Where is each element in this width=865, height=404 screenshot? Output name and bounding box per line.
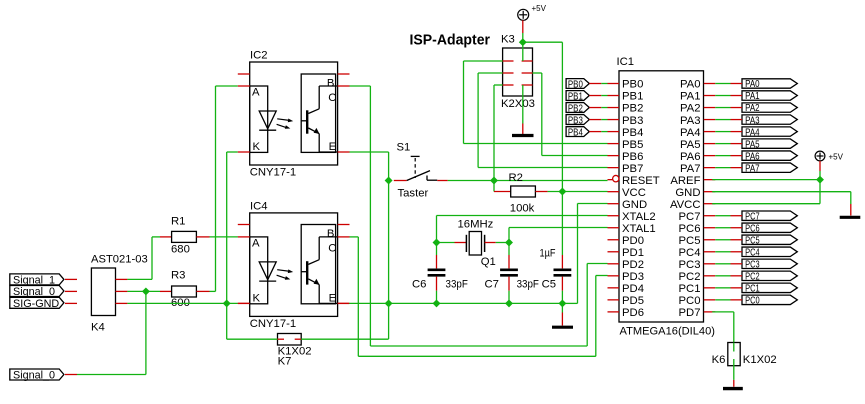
supply +5V top	[518, 9, 529, 20]
capacitor C7 33pF	[508, 255, 510, 268]
pin IC2 C	[338, 85, 350, 87]
wire to IC1 PD2	[587, 263, 607, 265]
transistor IC2 phototransistor	[306, 110, 308, 133]
wire to PD3 column	[358, 355, 596, 357]
wire to PB6	[542, 155, 608, 157]
wire K6 pin1	[733, 343, 735, 352]
svg-text:PB0: PB0	[622, 79, 643, 91]
pin K3 right row 73	[522, 72, 533, 74]
wire XTAL1 vertical	[508, 228, 510, 256]
wire PD7	[712, 311, 734, 313]
svg-text:Signal_1: Signal_1	[13, 274, 55, 286]
connector frame SIG-GND	[10, 297, 64, 308]
svg-text:PA3: PA3	[745, 114, 760, 126]
wire PA4	[715, 131, 730, 133]
svg-text:1µF: 1µF	[540, 248, 556, 260]
wire PC4	[715, 251, 730, 253]
node AREF	[816, 176, 824, 184]
svg-text:+5V: +5V	[829, 153, 844, 162]
connector K4 AST021-03	[91, 268, 115, 316]
IC4 LED box	[250, 237, 268, 304]
svg-text:AST021-03: AST021-03	[91, 254, 148, 266]
wire to PB5	[464, 143, 608, 145]
wire PD2 vertical	[586, 264, 588, 347]
IC1 pin VCC (left)	[608, 191, 620, 193]
svg-text:PC4: PC4	[745, 246, 760, 258]
svg-text:PB3: PB3	[568, 114, 583, 126]
IC1 pin PA5 (right)	[704, 143, 716, 145]
wire XTAL2 net	[437, 215, 608, 217]
pin PC6 frame	[731, 227, 743, 229]
pin IC4 B	[338, 224, 350, 226]
wire PB1	[601, 95, 607, 97]
svg-text:PC0: PC0	[745, 295, 760, 307]
svg-text:PC2: PC2	[745, 271, 760, 283]
IC1 pin XTAL2 (left)	[608, 215, 620, 217]
IC1 pin PB3 (left)	[608, 119, 620, 121]
wire K4-2 to R3	[127, 290, 160, 292]
wire +5V	[522, 33, 524, 42]
connector frame PC1	[742, 283, 797, 292]
wire MOSI vertical	[463, 61, 465, 144]
svg-text:PA2: PA2	[680, 103, 701, 115]
IC1 pin PC6 (right)	[704, 227, 716, 229]
pin PA3 frame	[731, 119, 743, 121]
node RESET/R2	[490, 177, 498, 185]
wire PC5	[715, 239, 730, 241]
wire IC4 C	[350, 236, 359, 238]
connector frame PA2	[742, 103, 797, 112]
IC1 pin PB5 (left)	[608, 143, 620, 145]
connector frame PA6	[742, 151, 797, 160]
svg-text:C6: C6	[412, 279, 426, 291]
wire XTAL1 net	[509, 227, 608, 229]
svg-text:K4: K4	[91, 322, 105, 334]
node crystal right	[505, 239, 513, 247]
svg-text:GND: GND	[622, 199, 647, 211]
wire K6 pin2	[733, 359, 735, 380]
wire +5V to VCC column	[523, 41, 563, 43]
node S1 left	[385, 177, 393, 185]
wire PA0	[715, 83, 730, 85]
wire VCC to C5	[561, 192, 563, 256]
node rail junction	[385, 299, 393, 307]
svg-text:100k: 100k	[510, 203, 535, 215]
svg-text:PD5: PD5	[622, 295, 644, 307]
svg-text:K3: K3	[501, 34, 515, 46]
svg-text:PB4: PB4	[622, 127, 643, 139]
IC1 pin PD1 (left)	[608, 251, 620, 253]
IC1 pin PA7 (right)	[704, 167, 716, 169]
pin Signal_1	[65, 278, 77, 280]
wire +5V to AREF	[819, 171, 821, 180]
wire PD7 to K6	[733, 312, 735, 343]
svg-text:A: A	[252, 87, 260, 99]
pin K4-1	[116, 278, 128, 280]
pin PC4 frame	[731, 251, 743, 253]
node VCC junction	[558, 188, 566, 196]
svg-text:PB3: PB3	[622, 115, 643, 127]
wire PC6	[715, 227, 730, 229]
wire GND rail right	[349, 302, 562, 304]
svg-text:PA3: PA3	[680, 115, 701, 127]
svg-text:PA7: PA7	[680, 163, 701, 175]
S1 actuator	[414, 158, 416, 178]
connector frame PA4	[742, 127, 797, 136]
wire RESET net	[448, 180, 608, 182]
pin PB3 frame	[589, 119, 601, 121]
IC1 pin GND (left)	[608, 203, 620, 205]
supply +5V right	[815, 151, 825, 161]
wire K3 pin3	[478, 72, 503, 74]
svg-text:PA4: PA4	[680, 127, 701, 139]
wire PA2	[715, 107, 730, 109]
svg-text:A: A	[252, 237, 260, 249]
svg-text:PA4: PA4	[745, 126, 760, 138]
IC1 pin PA0 (right)	[704, 83, 716, 85]
pin S1 right	[437, 180, 447, 182]
IC1 pin PD3 (left)	[608, 275, 620, 277]
optocoupler IC4 CNY17-1 outline	[250, 213, 338, 317]
wire R3 right	[210, 290, 216, 292]
wire PB4	[601, 131, 607, 133]
svg-text:PC6: PC6	[679, 223, 701, 235]
svg-text:PD3: PD3	[622, 271, 644, 283]
wire R2 left drop	[493, 181, 495, 192]
connector frame PA1	[742, 91, 797, 100]
wire IC2 C vertical	[369, 86, 371, 346]
svg-text:R1: R1	[171, 216, 185, 228]
svg-text:16MHz: 16MHz	[458, 219, 494, 231]
wire AVCC	[712, 203, 820, 205]
svg-text:VCC: VCC	[622, 187, 646, 199]
pin PA2 frame	[731, 107, 743, 109]
pin PB1 frame	[589, 95, 601, 97]
IC1 pin XTAL1 (left)	[608, 227, 620, 229]
pin IC2 B	[338, 73, 350, 75]
IC1 pin PC3 (right)	[704, 263, 716, 265]
svg-text:IC4: IC4	[250, 200, 268, 212]
pin IC4 C	[338, 236, 350, 238]
IC1 pin PD5 (left)	[608, 299, 620, 301]
IC1 pin PA1 (right)	[704, 95, 716, 97]
connector frame Signal_0 bottom	[10, 369, 64, 380]
connector frame PA5	[742, 139, 797, 148]
IC1 pin PC5 (right)	[704, 239, 716, 241]
connector frame PB3	[566, 115, 589, 125]
svg-text:K2X03: K2X03	[501, 98, 535, 110]
IC1 pin PC0 (right)	[704, 299, 716, 301]
IC1 pin PB0 (left)	[608, 83, 620, 85]
svg-text:+5V: +5V	[532, 4, 547, 13]
wire rail to K7 right	[388, 303, 390, 339]
IC1 pin PC4 (right)	[704, 251, 716, 253]
pin PC7 frame	[731, 215, 743, 217]
pin +5V top	[522, 20, 524, 33]
ground symbol K3	[512, 134, 534, 137]
wire	[437, 242, 455, 244]
IC1 pin PC2 (right)	[704, 275, 716, 277]
connector K7 K1X02	[278, 334, 302, 346]
svg-text:PB2: PB2	[568, 102, 583, 114]
IC1 pin PB2 (left)	[608, 107, 620, 109]
node SIG-GND junction	[223, 299, 231, 307]
wire PB0	[601, 83, 607, 85]
pin K3 left row 61	[503, 60, 514, 62]
wire IC2 C	[350, 85, 371, 87]
svg-text:PD2: PD2	[622, 259, 644, 271]
svg-text:Q1: Q1	[481, 256, 496, 268]
svg-text:XTAL1: XTAL1	[622, 223, 656, 235]
S1 lever	[407, 171, 430, 181]
wire GND right	[712, 191, 851, 193]
wire PC7	[715, 215, 730, 217]
wire Signal_0 bottom	[77, 374, 146, 376]
svg-text:PB1: PB1	[622, 91, 643, 103]
connector frame PC2	[742, 271, 797, 280]
IC1 pin PD6 (left)	[608, 311, 620, 313]
wire IC2 K down to rail	[226, 152, 228, 303]
svg-text:SIG-GND: SIG-GND	[13, 298, 59, 310]
svg-text:CNY17-1: CNY17-1	[250, 167, 296, 179]
svg-text:PA6: PA6	[680, 151, 701, 163]
wire K3 pin5	[494, 84, 503, 86]
svg-text:PC3: PC3	[679, 259, 701, 271]
svg-text:PB4: PB4	[568, 126, 583, 138]
IC4 LED symbol	[259, 262, 276, 280]
svg-text:PB1: PB1	[568, 90, 583, 102]
pin K6 to ground	[733, 380, 735, 387]
svg-text:PC1: PC1	[679, 283, 701, 295]
svg-text:R2: R2	[509, 172, 523, 184]
wire PD3 vertical	[595, 276, 597, 357]
wire R1 to IC4 A	[210, 236, 238, 238]
IC1 pin PB1 (left)	[608, 95, 620, 97]
svg-text:K6: K6	[712, 354, 726, 366]
IC1 pin PD7 (right)	[704, 311, 716, 313]
IC1 pin PB7 (left)	[608, 167, 620, 169]
IC1 pin PA3 (right)	[704, 119, 716, 121]
S1 right contact	[426, 176, 428, 181]
svg-text:PD0: PD0	[622, 235, 644, 247]
IC1 pin GND (right)	[704, 191, 716, 193]
pin PC1 frame	[731, 287, 743, 289]
wire K4-1 to R1	[127, 278, 152, 280]
svg-text:PC2: PC2	[679, 271, 701, 283]
wire SIG-GND rail left	[127, 302, 237, 304]
pin IC4 NC left	[238, 224, 250, 226]
wire PA1	[715, 95, 730, 97]
wire to R1 left	[152, 236, 160, 238]
connector K6 K1X02	[728, 343, 740, 366]
wire vertical up to R1 row	[151, 237, 153, 280]
IC1 pin PD4 (left)	[608, 287, 620, 289]
svg-text:PB2: PB2	[622, 103, 643, 115]
pin Signal_0 bottom	[65, 374, 77, 376]
wire PC2	[715, 275, 730, 277]
IC1 pin PB6 (left)	[608, 155, 620, 157]
wire RESET vertical	[493, 85, 495, 181]
svg-text:K1X02: K1X02	[743, 354, 777, 366]
node C6 gnd	[433, 299, 441, 307]
svg-text:PB0: PB0	[568, 78, 583, 90]
svg-text:RESET: RESET	[622, 175, 660, 187]
wire +5V into K3 pin2	[522, 42, 524, 61]
wire vertical R3 to IC2 A	[215, 86, 217, 291]
ground symbol K6	[723, 387, 743, 390]
connector frame PC3	[742, 259, 797, 268]
svg-text:PD7: PD7	[679, 307, 701, 319]
wire IC4 C vertical	[357, 237, 359, 356]
svg-text:K7: K7	[278, 356, 292, 368]
pin +5V right	[819, 161, 821, 171]
svg-text:AREF: AREF	[670, 175, 700, 187]
wire to IC2 K pin	[227, 151, 238, 153]
wire PA5	[715, 143, 730, 145]
svg-text:C7: C7	[485, 279, 499, 291]
IC1 pin AVCC (right)	[704, 203, 716, 205]
connector frame PB2	[566, 103, 589, 113]
svg-text:B: B	[327, 78, 335, 90]
IC1 pin PA4 (right)	[704, 131, 716, 133]
pin PB4 frame	[589, 131, 601, 133]
svg-text:C: C	[328, 92, 336, 104]
connector frame PB4	[566, 127, 589, 137]
svg-text:S1: S1	[397, 142, 411, 154]
svg-text:R3: R3	[171, 270, 185, 282]
pin PC5 frame	[731, 239, 743, 241]
svg-text:Signal_0: Signal_0	[13, 286, 55, 298]
IC2 LED symbol	[259, 111, 276, 129]
resistor R1 680	[160, 236, 172, 238]
svg-text:XTAL2: XTAL2	[622, 211, 656, 223]
wire MISO vertical	[541, 73, 543, 156]
svg-text:C: C	[328, 243, 336, 255]
wire rail to K7 left	[226, 303, 228, 339]
pin PA4 frame	[731, 131, 743, 133]
svg-text:PC7: PC7	[745, 210, 760, 222]
IC2 LED box	[250, 86, 268, 152]
svg-text:ISP-Adapter: ISP-Adapter	[410, 32, 491, 48]
svg-text:680: 680	[171, 244, 190, 256]
connector frame PC5	[742, 235, 797, 244]
transistor IC4 phototransistor	[306, 261, 308, 284]
connector frame PA7	[742, 163, 797, 172]
wire K7 left	[227, 338, 278, 340]
connector frame PB0	[566, 79, 589, 89]
svg-text:PC5: PC5	[679, 235, 701, 247]
svg-text:33pF: 33pF	[517, 279, 539, 291]
connector frame Signal_1	[10, 274, 64, 285]
svg-text:PA7: PA7	[745, 162, 760, 174]
wire	[436, 291, 438, 304]
pin K3 right row 61	[522, 60, 533, 62]
wire IC2 E vertical to rail	[388, 152, 390, 303]
IC1 pin PD2 (left)	[608, 263, 620, 265]
wire IC2 E	[350, 151, 389, 153]
svg-text:K: K	[253, 141, 261, 153]
svg-text:PA1: PA1	[680, 91, 701, 103]
wire to PB7	[478, 167, 607, 169]
wire K3 pin1	[464, 60, 503, 62]
wire PC1	[715, 287, 730, 289]
svg-text:PC3: PC3	[745, 259, 760, 271]
svg-text:PC4: PC4	[679, 247, 701, 259]
node Signal_0 junction	[142, 287, 150, 295]
pin IC4 E	[338, 302, 350, 304]
wire to IC2 A pin	[216, 85, 238, 87]
wire	[496, 242, 509, 244]
connector frame Signal_0	[10, 286, 64, 297]
wire SCK vertical	[477, 73, 479, 168]
connector frame PC6	[742, 223, 797, 232]
IC1 pin AREF (right)	[704, 179, 716, 181]
wire +5V to AVCC	[819, 180, 821, 204]
capacitor C6 33pF	[436, 255, 438, 268]
IC1 pin PB4 (left)	[608, 131, 620, 133]
pin PC3 frame	[731, 263, 743, 265]
svg-text:CNY17-1: CNY17-1	[250, 318, 296, 330]
wire PA6	[715, 155, 730, 157]
pin SIG-GND	[65, 302, 77, 304]
pin K3 right row 85	[522, 84, 533, 86]
wire PB2	[601, 107, 607, 109]
svg-text:PA2: PA2	[745, 102, 760, 114]
IC1 pin PA6 (right)	[704, 155, 716, 157]
svg-text:GND: GND	[675, 187, 700, 199]
wire	[508, 291, 510, 304]
wire PA7	[715, 167, 730, 169]
svg-text:C5: C5	[542, 279, 556, 291]
wire to PD2 column	[370, 345, 587, 347]
svg-text:PD6: PD6	[622, 307, 644, 319]
wire K7 right	[301, 338, 388, 340]
pin IC4 A	[238, 236, 250, 238]
pin PA7 frame	[731, 167, 743, 169]
pin PA6 frame	[731, 155, 743, 157]
svg-text:PC7: PC7	[679, 211, 701, 223]
pin IC4 K	[238, 302, 250, 304]
node C7 gnd	[505, 299, 513, 307]
connector frame PB1	[566, 91, 589, 101]
IC1 pin PC7 (right)	[704, 215, 716, 217]
pin PB2 frame	[589, 107, 601, 109]
pin K3 GND stub	[522, 124, 524, 135]
pin PA5 frame	[731, 143, 743, 145]
wire K3 pin4	[533, 72, 542, 74]
wire GND right vertical	[850, 192, 852, 204]
svg-text:PD4: PD4	[622, 283, 644, 295]
svg-text:IC1: IC1	[617, 56, 635, 68]
svg-text:PC6: PC6	[745, 222, 760, 234]
IC1 pin RESET (left)	[608, 179, 613, 181]
pin PA1 frame	[731, 95, 743, 97]
svg-text:K: K	[253, 293, 261, 305]
wire R2 to VCC pin	[548, 191, 608, 193]
connector frame PC7	[742, 211, 797, 220]
ground symbol right	[840, 216, 861, 219]
pin IC2 A	[238, 85, 250, 87]
wire GND to rail	[562, 302, 577, 304]
pin K3 left row 85	[503, 84, 514, 86]
svg-text:PC1: PC1	[745, 283, 760, 295]
pin PC2 frame	[731, 275, 743, 277]
wire PA3	[715, 119, 730, 121]
svg-text:PA5: PA5	[680, 139, 701, 151]
wire PB3	[601, 119, 607, 121]
pin PA0 frame	[731, 83, 743, 85]
wire K3 GND pin	[522, 85, 524, 124]
